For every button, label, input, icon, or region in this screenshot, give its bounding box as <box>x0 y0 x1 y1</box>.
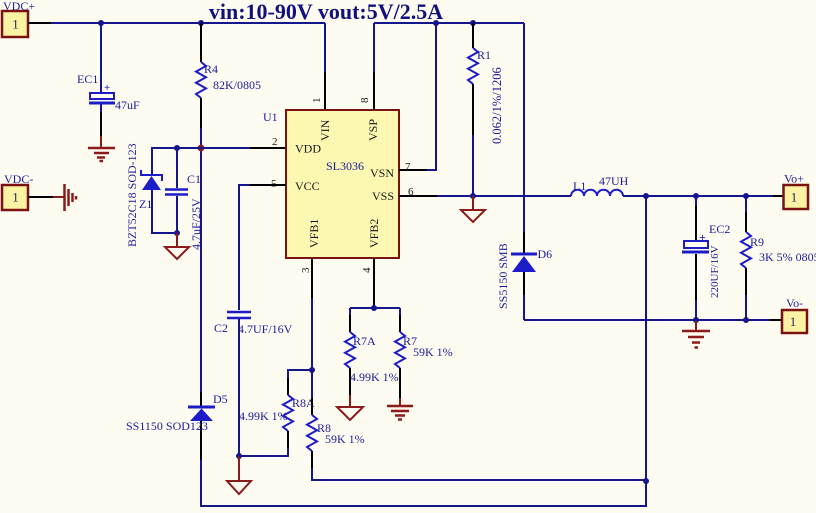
resistor R8 <box>307 370 365 468</box>
svg-text:1: 1 <box>791 190 798 205</box>
capacitor EC2 <box>682 196 730 320</box>
wire VFB1 to R8A <box>288 370 312 378</box>
svg-text:L1: L1 <box>573 179 586 193</box>
svg-text:7: 7 <box>405 161 411 173</box>
svg-text:C2: C2 <box>214 321 228 335</box>
U1 pin names <box>295 119 394 248</box>
resistor R4 <box>196 23 261 128</box>
ground Z1/C1 power triangle <box>165 233 189 259</box>
svg-text:VSS: VSS <box>372 189 394 203</box>
wire output feedback column <box>645 196 647 481</box>
zener Z1 <box>125 143 174 247</box>
ground EC1 earth <box>88 136 115 161</box>
svg-text:SL3036: SL3036 <box>326 159 364 173</box>
svg-text:4.7UF/16V: 4.7UF/16V <box>238 322 293 336</box>
svg-text:4.99K 1%: 4.99K 1% <box>350 370 399 384</box>
resistor R7 <box>395 308 453 398</box>
node junction Z1/C1 bottom <box>174 230 180 236</box>
svg-text:VDC-: VDC- <box>4 172 33 186</box>
node junction output column <box>643 193 649 199</box>
ground EC2 earth <box>682 320 710 348</box>
svg-text:VSP: VSP <box>366 119 380 141</box>
wire pin7 VSN riser <box>399 23 436 170</box>
U1 pin numbers <box>271 97 414 273</box>
svg-text:59K 1%: 59K 1% <box>325 432 365 446</box>
svg-text:82K/0805: 82K/0805 <box>213 78 261 92</box>
svg-text:EC1: EC1 <box>77 72 98 86</box>
port VDC+ <box>2 0 35 37</box>
wire R4 to pin2 row and down to D5 <box>200 128 202 392</box>
node junction EC2 bottom <box>693 317 699 323</box>
wire EC1 drop <box>100 23 102 93</box>
svg-text:BZT52C18 SOD-123: BZT52C18 SOD-123 <box>125 143 139 247</box>
ground C2 power triangle <box>227 456 251 494</box>
svg-text:VSN: VSN <box>370 166 394 180</box>
svg-text:vin:10-90V vout:5V/2.5A: vin:10-90V vout:5V/2.5A <box>209 0 443 24</box>
svg-text:SS1150 SOD123: SS1150 SOD123 <box>126 419 208 433</box>
svg-text:220UF/16V: 220UF/16V <box>709 245 721 298</box>
wire L1 output rail <box>623 195 785 197</box>
svg-text:4: 4 <box>361 267 373 273</box>
ground R7 earth <box>387 398 413 420</box>
capacitor EC1 <box>77 72 140 136</box>
svg-text:VFB1: VFB1 <box>307 219 321 248</box>
inductor L1 <box>571 174 629 196</box>
svg-text:3K 5% 0805: 3K 5% 0805 <box>759 250 816 264</box>
svg-text:0.062/1%/1206: 0.062/1%/1206 <box>490 67 504 144</box>
svg-text:Vo-: Vo- <box>786 296 803 310</box>
svg-text:8: 8 <box>359 97 371 103</box>
svg-text:4.99K 1%: 4.99K 1% <box>239 409 288 423</box>
wire top rail VSP net <box>374 22 524 24</box>
svg-text:R1: R1 <box>477 48 491 62</box>
wire pin2 VDD net <box>152 148 288 174</box>
diode D6 <box>496 243 552 320</box>
svg-text:R9: R9 <box>750 235 764 249</box>
wire pin1 riser <box>324 23 326 110</box>
diode D5 <box>126 392 228 460</box>
ground VSS power triangle <box>461 196 485 222</box>
svg-text:1: 1 <box>12 190 19 205</box>
wire pin8 riser <box>373 23 375 110</box>
IC U1 body <box>263 110 399 258</box>
resistor R1 <box>468 23 504 196</box>
ground R7A power triangle <box>337 395 363 420</box>
svg-text:VIN: VIN <box>318 119 332 141</box>
node junction R1 top <box>470 20 476 26</box>
svg-text:D5: D5 <box>213 392 228 406</box>
svg-text:Z1: Z1 <box>139 197 152 211</box>
wire Vo- rail <box>524 319 782 321</box>
svg-text:59K 1%: 59K 1% <box>413 345 453 359</box>
svg-text:VFB2: VFB2 <box>367 219 381 248</box>
svg-text:47UH: 47UH <box>599 174 629 188</box>
wire pin5 VCC net <box>239 185 286 310</box>
svg-text:D6: D6 <box>538 247 553 261</box>
svg-text:C1: C1 <box>187 172 201 186</box>
capacitor C2 <box>214 312 293 456</box>
node junction C2 bottom <box>236 453 242 459</box>
svg-text:R7A: R7A <box>353 334 376 348</box>
wire VFB2 split bar <box>350 307 400 309</box>
port VDC- <box>2 172 33 210</box>
svg-text:1: 1 <box>12 17 19 32</box>
resistor R7A <box>345 308 399 395</box>
svg-text:47uF: 47uF <box>115 98 140 112</box>
wire D6 column <box>523 23 525 253</box>
svg-text:EC2: EC2 <box>709 222 730 236</box>
wire VDC- stub <box>28 196 53 198</box>
resistor R8A <box>239 378 315 456</box>
svg-text:VDC+: VDC+ <box>3 0 35 13</box>
node junction R1 bottom / ground <box>470 193 476 199</box>
wire pin6 VSS net <box>399 195 571 197</box>
svg-text:VDD: VDD <box>295 142 321 156</box>
wire D5 to bottom rail <box>201 460 646 506</box>
svg-text:VCC: VCC <box>295 179 320 193</box>
ground VDC- earth rotated <box>53 184 76 211</box>
svg-text:2: 2 <box>272 136 278 148</box>
svg-text:SS5150 SMB: SS5150 SMB <box>496 243 510 309</box>
node junction R9 bottom <box>743 317 749 323</box>
node junction VSN top <box>433 20 439 26</box>
svg-text:3: 3 <box>300 267 312 273</box>
node junction VFB2 split <box>371 305 377 311</box>
svg-text:1: 1 <box>790 314 797 329</box>
svg-text:U1: U1 <box>263 110 278 124</box>
svg-text:4.7uF/25V: 4.7uF/25V <box>189 198 203 250</box>
node junction VFB1 split <box>309 367 315 373</box>
wire pin4 VFB2 net <box>373 258 375 308</box>
capacitor C1 <box>165 148 203 250</box>
node junction pin2/R4 cross (dark red) <box>198 145 205 152</box>
node junction R9 top <box>743 193 749 199</box>
wire R8 to mid rail <box>312 468 646 480</box>
wire top rail VIN net <box>28 22 325 24</box>
port Vo- <box>782 296 807 333</box>
node junction EC1 top <box>98 20 104 26</box>
node junction R4 top <box>198 20 204 26</box>
port Vo+ <box>784 172 809 210</box>
resistor R9 <box>741 196 816 320</box>
wire pin3 VFB1 net <box>311 258 313 370</box>
node junction bottom rails <box>643 478 649 484</box>
node junction C1 top <box>174 145 180 151</box>
svg-text:Vo+: Vo+ <box>784 172 804 186</box>
svg-text:1: 1 <box>311 98 323 104</box>
svg-text:R4: R4 <box>204 62 218 76</box>
node junction EC2 top <box>693 193 699 199</box>
